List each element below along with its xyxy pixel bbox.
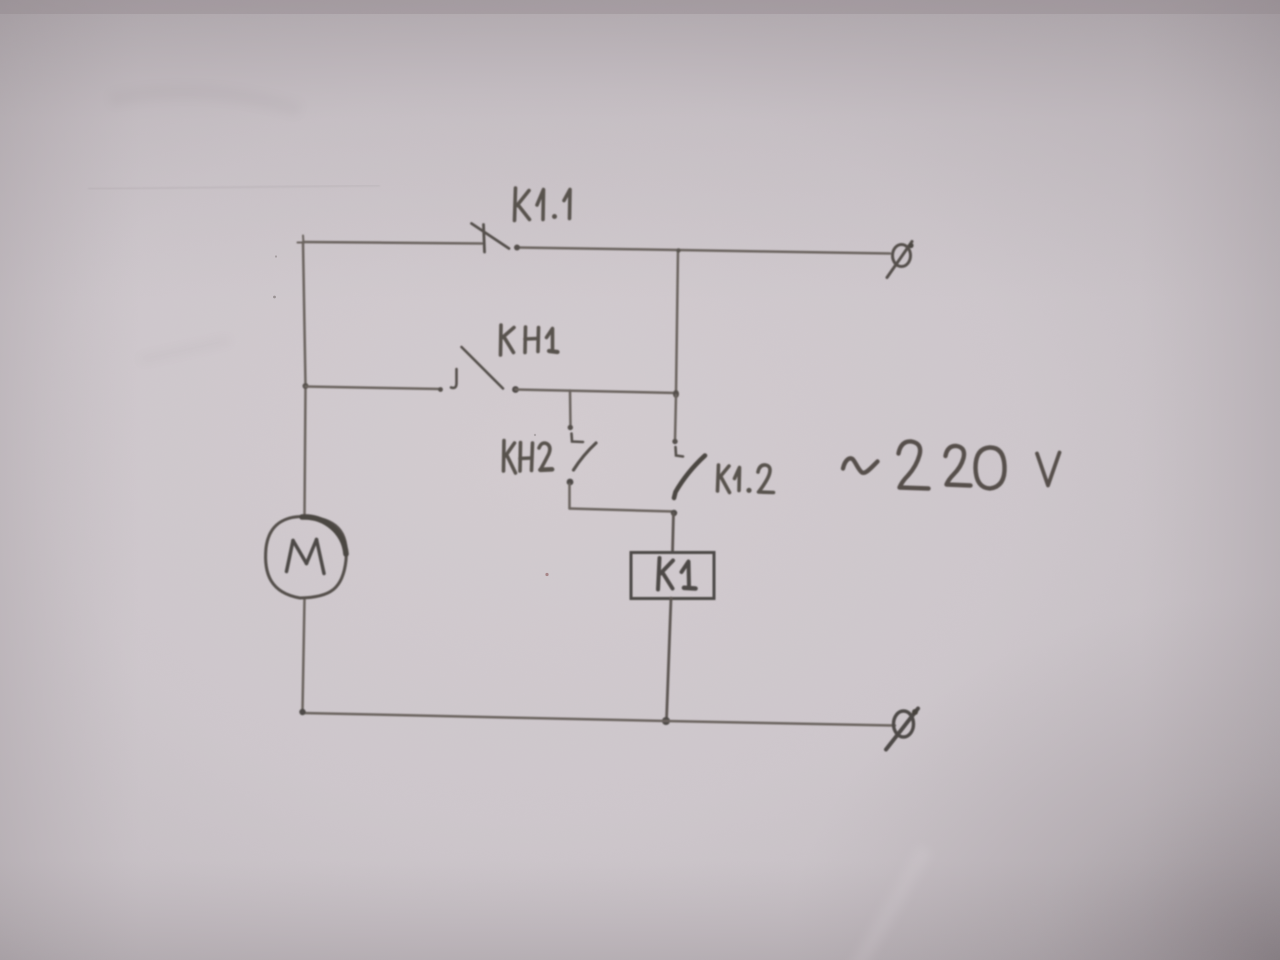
label K1 in box: [658, 558, 696, 590]
circuit drawing: [266, 224, 918, 750]
wire K1.2 top stub: [675, 395, 676, 441]
wire right rail: [676, 251, 678, 394]
label KH1: [501, 325, 558, 355]
wire motor bottom rail: [303, 599, 305, 711]
node bottom junction: [662, 717, 670, 725]
faint smudge top left: [110, 92, 300, 360]
labels: [501, 188, 1060, 590]
wire KH1 row right: [516, 390, 677, 394]
contact KH1 fixed J: [451, 347, 503, 389]
node KH1 right contact dot: [512, 386, 519, 393]
wire KH2 bottom stub: [568, 484, 571, 509]
contact KH2 blade: [574, 443, 597, 470]
contact K1.2 blade thick: [674, 456, 705, 499]
relay coil K1 box: [631, 553, 714, 599]
label K1.2: [718, 465, 774, 493]
terminal bottom right: [886, 709, 918, 750]
wire KH1 row left: [306, 387, 441, 390]
motor letter M: [287, 540, 325, 574]
node KH2 upper dot: [568, 425, 573, 430]
fold highlight bottom right: [796, 843, 935, 960]
label KH2: [504, 441, 553, 474]
wire KH2 to K1.2 horizontal: [570, 509, 674, 512]
contact KH2 fixed L: [572, 434, 597, 471]
node bottom left: [299, 709, 305, 715]
wire left rail: [303, 242, 306, 516]
motor M1 circle: [266, 517, 347, 599]
label K1.1: [515, 188, 571, 221]
wire to relay coil: [673, 513, 674, 553]
node K1.2 bottom junction: [671, 510, 677, 516]
label ~220V: [843, 441, 1060, 488]
contact K1.1: [472, 224, 510, 253]
wire bottom row: [303, 713, 896, 726]
node: K1.1 right contact dot: [514, 245, 520, 251]
terminal top right: [887, 242, 914, 278]
wire coil to bottom: [667, 598, 672, 720]
node right rail / KH1 junction: [673, 390, 679, 398]
node KH2 lower dot: [567, 479, 574, 486]
node small dot: [438, 387, 443, 392]
node on left rail: [303, 383, 309, 389]
contact KH1 blade: [462, 347, 504, 389]
contact K1.2 fixed L: [674, 447, 705, 498]
stray specks: [273, 296, 276, 299]
motor thick top arc: [302, 517, 346, 554]
wire KH2 top stub: [569, 391, 572, 428]
node K1.2 upper dot: [672, 439, 677, 444]
wire top right segment: [517, 248, 890, 254]
wire top left segment: [303, 242, 482, 244]
corner overshoot: [302, 236, 305, 244]
